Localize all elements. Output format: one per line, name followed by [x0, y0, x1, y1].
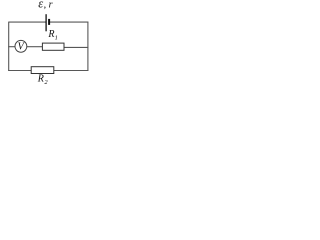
battery cell short plate	[48, 19, 50, 25]
svg-text:ε: ε	[38, 0, 43, 10]
wire top-left segment	[9, 21, 46, 23]
wire left vertical	[8, 22, 10, 71]
svg-text:R: R	[37, 73, 44, 84]
svg-text:2: 2	[44, 79, 48, 86]
resistor R2 box	[31, 67, 54, 74]
voltmeter V circle	[15, 40, 27, 52]
wire right vertical	[87, 22, 89, 71]
svg-text:, r: , r	[44, 0, 53, 10]
svg-text:1: 1	[55, 35, 58, 42]
wire bottom-right of R2	[54, 70, 89, 72]
battery cell long plate	[45, 14, 47, 31]
wire R1 to right vertical	[64, 46, 88, 48]
wire bottom segment	[8, 70, 31, 72]
wire middle branch left	[8, 46, 15, 48]
resistor R1 box	[42, 43, 64, 50]
svg-text:R: R	[47, 29, 54, 40]
wire voltmeter to R1	[27, 46, 43, 48]
wire top-right segment	[50, 21, 89, 23]
